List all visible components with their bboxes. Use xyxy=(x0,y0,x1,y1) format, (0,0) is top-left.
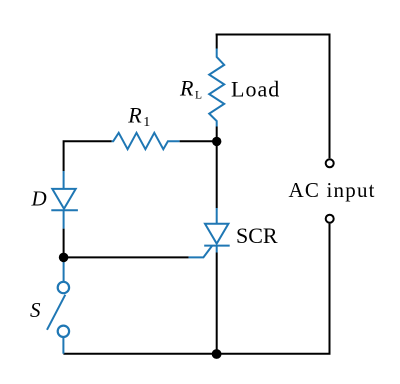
svg-text:L: L xyxy=(195,89,202,101)
svg-text:S: S xyxy=(30,298,41,322)
svg-text:1: 1 xyxy=(143,115,150,130)
svg-text:Load: Load xyxy=(231,77,280,102)
svg-text:AC input: AC input xyxy=(289,178,376,202)
svg-text:R: R xyxy=(127,103,142,128)
svg-text:D: D xyxy=(31,186,47,210)
svg-text:SCR: SCR xyxy=(236,223,278,248)
svg-text:R: R xyxy=(179,75,194,100)
